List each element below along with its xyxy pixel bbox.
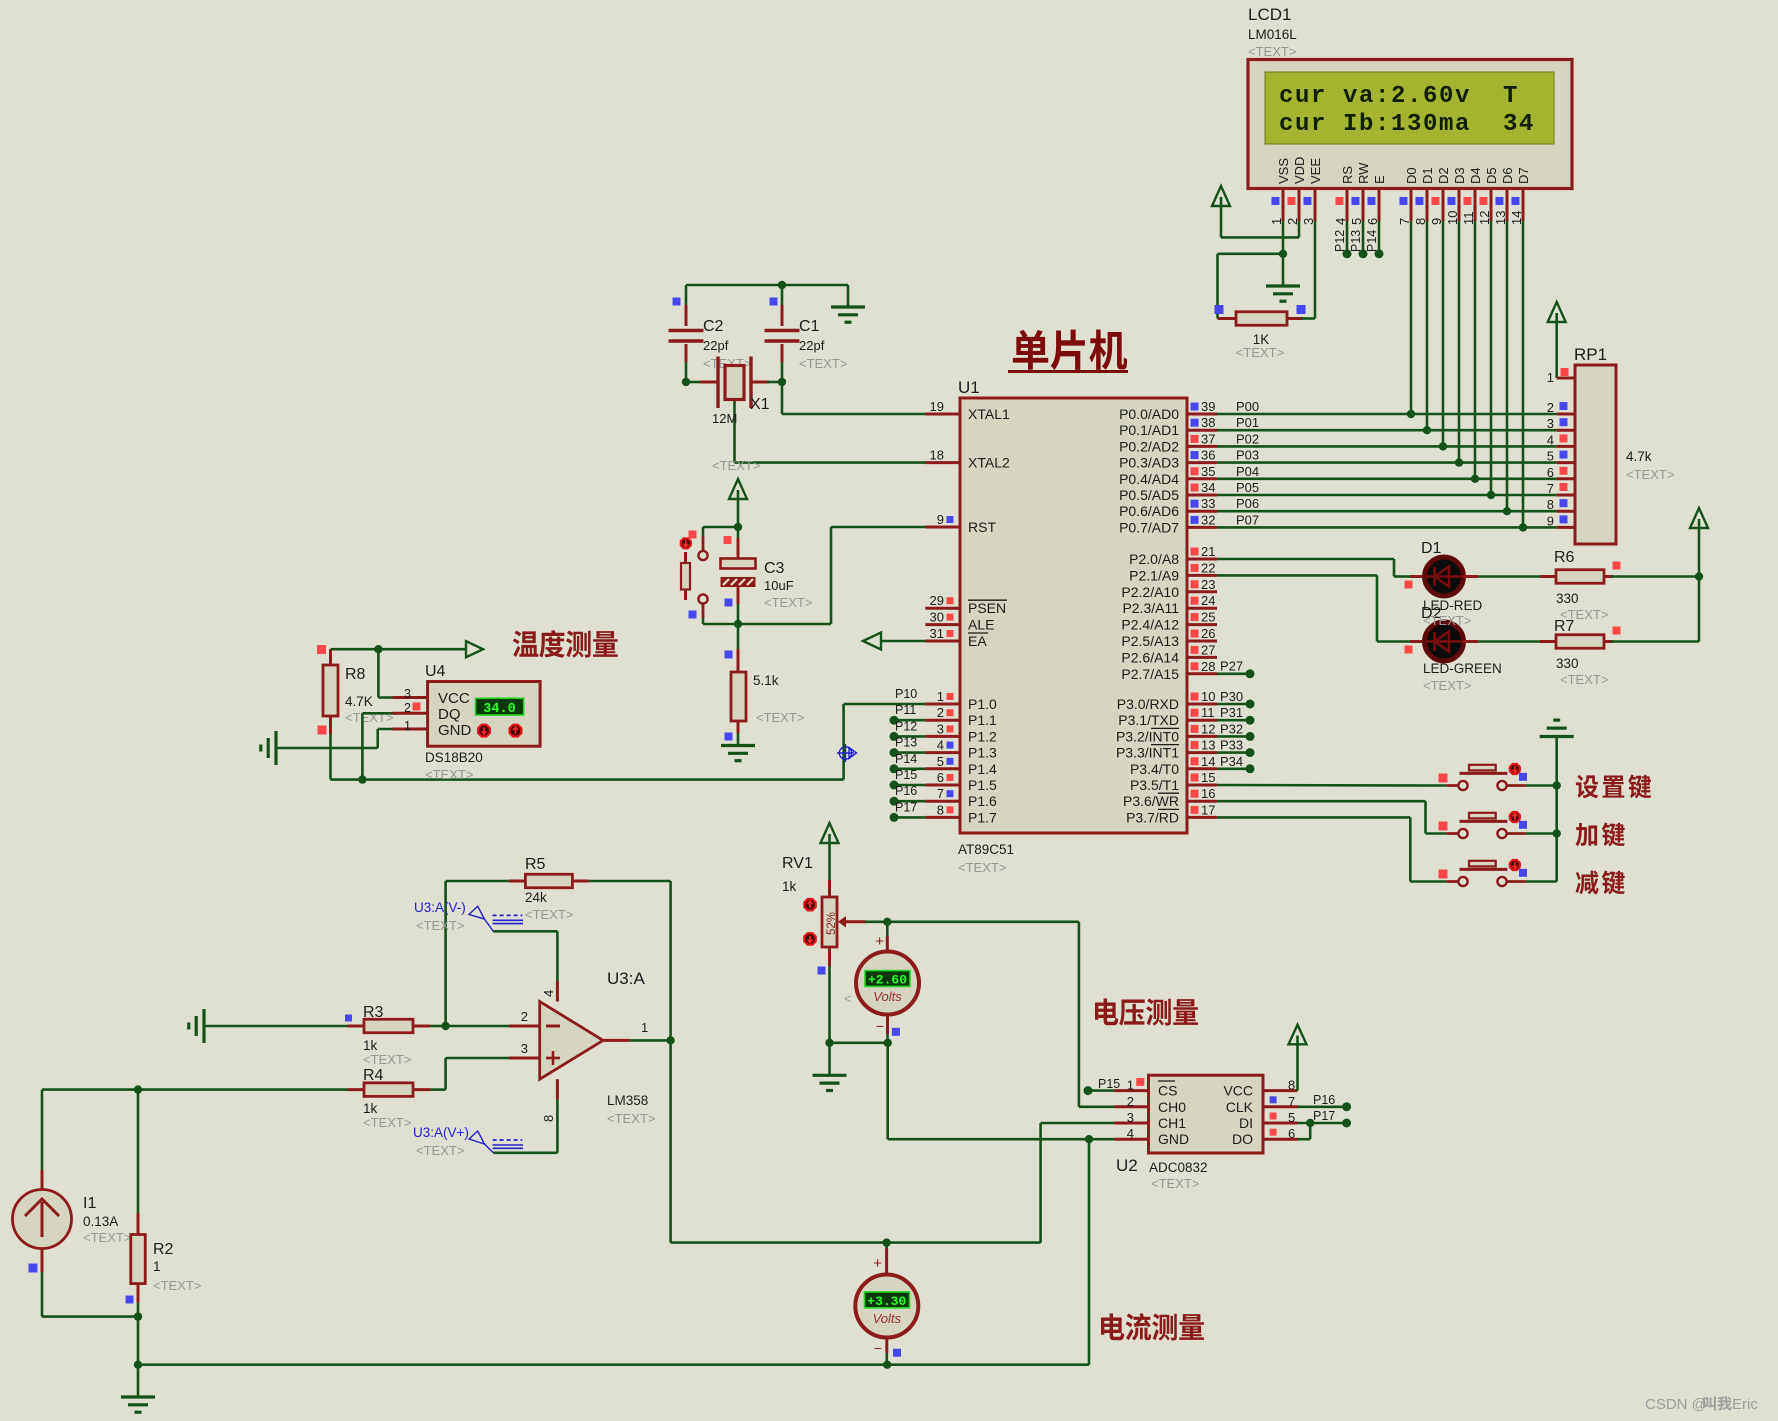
svg-text:P11: P11 (895, 703, 916, 717)
svg-text:X1: X1 (750, 396, 770, 413)
svg-text:P2.4/A12: P2.4/A12 (1121, 617, 1179, 633)
svg-text:4.7k: 4.7k (1626, 449, 1652, 464)
svg-text:4: 4 (1127, 1126, 1134, 1141)
svg-text:CH0: CH0 (1158, 1099, 1186, 1115)
svg-text:CS: CS (1158, 1083, 1177, 1099)
svg-text:D1: D1 (1420, 167, 1435, 184)
svg-text:27: 27 (1201, 642, 1215, 657)
svg-text:C1: C1 (799, 318, 820, 335)
svg-text:U3:A: U3:A (607, 969, 645, 988)
svg-text:P34: P34 (1220, 754, 1243, 769)
svg-text:<: < (844, 991, 852, 1006)
svg-text:P2.7/A15: P2.7/A15 (1121, 666, 1179, 682)
svg-text:52%: 52% (826, 912, 838, 935)
svg-text:1: 1 (404, 719, 411, 733)
svg-text:VDD: VDD (1292, 157, 1307, 184)
svg-text:3: 3 (1127, 1110, 1134, 1125)
svg-text:P05: P05 (1236, 480, 1259, 495)
svg-text:8: 8 (1547, 497, 1554, 512)
svg-text:cur va:2.60v T: cur va:2.60v T (1279, 83, 1519, 110)
svg-text:−: − (876, 1018, 884, 1034)
svg-text:16: 16 (1201, 786, 1215, 801)
svg-text:U3:A(V-): U3:A(V-) (414, 900, 466, 915)
svg-text:3: 3 (937, 721, 944, 736)
svg-text:4: 4 (937, 738, 944, 753)
svg-text:1k: 1k (363, 1038, 378, 1053)
svg-text:P3.6/WR: P3.6/WR (1123, 793, 1179, 809)
svg-text:R7: R7 (1554, 618, 1575, 635)
svg-text:P0.2/AD2: P0.2/AD2 (1119, 438, 1179, 454)
svg-text:24: 24 (1201, 593, 1215, 608)
svg-text:CSDN @: CSDN @ (1645, 1396, 1707, 1413)
svg-text:17: 17 (1201, 802, 1215, 817)
svg-text:1: 1 (641, 1020, 648, 1035)
svg-text:Volts: Volts (873, 1311, 902, 1326)
svg-text:+: + (873, 1255, 882, 1272)
svg-text:D5: D5 (1484, 167, 1499, 184)
svg-text:P1.2: P1.2 (968, 728, 997, 744)
svg-text:RP1: RP1 (1574, 345, 1607, 364)
svg-text:RW: RW (1356, 162, 1371, 184)
svg-text:P3.0/RXD: P3.0/RXD (1117, 696, 1179, 712)
svg-text:R8: R8 (345, 666, 366, 683)
svg-text:DO: DO (1232, 1131, 1253, 1147)
svg-text:2: 2 (1547, 400, 1554, 415)
svg-text:C3: C3 (764, 560, 785, 577)
svg-text:6: 6 (1547, 465, 1554, 480)
svg-text:10: 10 (1201, 689, 1215, 704)
svg-text:38: 38 (1201, 415, 1215, 430)
svg-text:<TEXT>: <TEXT> (764, 595, 812, 610)
svg-text:7: 7 (1547, 481, 1554, 496)
svg-text:7: 7 (937, 786, 944, 801)
svg-text:<TEXT>: <TEXT> (363, 1052, 411, 1067)
svg-text:7: 7 (1288, 1094, 1295, 1109)
svg-text:P2.0/A8: P2.0/A8 (1129, 551, 1179, 567)
svg-text:P1.0: P1.0 (968, 696, 997, 712)
svg-text:1k: 1k (363, 1101, 378, 1116)
svg-text:VEE: VEE (1308, 158, 1323, 184)
svg-text:−: − (874, 1340, 882, 1356)
svg-text:P3.4/T0: P3.4/T0 (1130, 761, 1179, 777)
svg-text:P01: P01 (1236, 415, 1259, 430)
svg-text:P15: P15 (1098, 1077, 1120, 1091)
svg-text:RS: RS (1340, 166, 1355, 184)
svg-text:5: 5 (937, 754, 944, 769)
svg-text:9: 9 (1547, 513, 1554, 528)
svg-text:RST: RST (968, 519, 996, 535)
svg-text:LCD1: LCD1 (1248, 5, 1291, 24)
svg-text:XTAL1: XTAL1 (968, 406, 1010, 422)
svg-text:P27: P27 (1220, 659, 1243, 674)
svg-text:21: 21 (1201, 544, 1215, 559)
svg-text:28: 28 (1201, 659, 1215, 674)
svg-text:11: 11 (1201, 705, 1215, 720)
svg-text:Volts: Volts (873, 989, 902, 1004)
svg-text:34: 34 (1201, 480, 1215, 495)
svg-text:P17: P17 (895, 800, 917, 814)
svg-text:2: 2 (521, 1009, 528, 1024)
svg-text:ADC0832: ADC0832 (1149, 1160, 1208, 1175)
svg-text:18: 18 (930, 448, 944, 463)
svg-text:LED-GREEN: LED-GREEN (1423, 661, 1502, 676)
svg-text:P30: P30 (1220, 689, 1243, 704)
svg-text:29: 29 (930, 593, 944, 608)
svg-text:P0.3/AD3: P0.3/AD3 (1119, 455, 1179, 471)
svg-text:P1.1: P1.1 (968, 712, 997, 728)
svg-text:35: 35 (1201, 464, 1215, 479)
svg-text:GND: GND (438, 722, 472, 739)
svg-text:1: 1 (153, 1259, 161, 1274)
svg-text:<TEXT>: <TEXT> (425, 767, 473, 782)
svg-text:<TEXT>: <TEXT> (958, 860, 1006, 875)
svg-text:22: 22 (1201, 560, 1215, 575)
svg-text:P0.0/AD0: P0.0/AD0 (1119, 406, 1179, 422)
svg-text:3: 3 (404, 687, 411, 701)
svg-text:33: 33 (1201, 496, 1215, 511)
svg-text:330: 330 (1556, 656, 1579, 671)
svg-text:P16: P16 (895, 784, 917, 798)
svg-text:+3.30: +3.30 (867, 1294, 906, 1309)
svg-text:U4: U4 (425, 663, 446, 680)
svg-text:4.7K: 4.7K (345, 694, 373, 709)
svg-text:D7: D7 (1516, 167, 1531, 184)
svg-text:12M: 12M (712, 411, 737, 426)
svg-text:<TEXT>: <TEXT> (607, 1111, 655, 1126)
svg-text:P10: P10 (895, 687, 917, 701)
svg-text:12: 12 (1201, 721, 1215, 736)
svg-text:P32: P32 (1220, 721, 1243, 736)
svg-text:U1: U1 (958, 378, 980, 397)
svg-text:P12: P12 (1333, 230, 1347, 252)
svg-text:P2.1/A9: P2.1/A9 (1129, 567, 1179, 583)
svg-text:VCC: VCC (1223, 1083, 1253, 1099)
svg-text:1k: 1k (782, 879, 797, 894)
svg-text:3: 3 (1547, 416, 1554, 431)
svg-text:U3:A(V+): U3:A(V+) (413, 1125, 469, 1140)
svg-text:CLK: CLK (1226, 1099, 1254, 1115)
svg-text:+2.60: +2.60 (868, 972, 907, 987)
svg-text:D3: D3 (1452, 167, 1467, 184)
svg-text:22pf: 22pf (703, 338, 729, 353)
svg-text:1: 1 (937, 689, 944, 704)
svg-text:XTAL2: XTAL2 (968, 455, 1010, 471)
svg-text:39: 39 (1201, 399, 1215, 414)
svg-text:D6: D6 (1500, 167, 1515, 184)
svg-text:25: 25 (1201, 610, 1215, 625)
svg-text:2: 2 (1127, 1094, 1134, 1109)
svg-text:AT89C51: AT89C51 (958, 842, 1014, 857)
svg-text:LM016L: LM016L (1248, 27, 1297, 42)
svg-text:<TEXT>: <TEXT> (83, 1230, 131, 1245)
svg-text:4: 4 (1547, 432, 1554, 447)
svg-text:U2: U2 (1116, 1156, 1138, 1175)
svg-text:6: 6 (937, 770, 944, 785)
svg-text:GND: GND (1158, 1131, 1189, 1147)
svg-text:<TEXT>: <TEXT> (799, 356, 847, 371)
svg-text:P06: P06 (1236, 496, 1259, 511)
svg-text:<TEXT>: <TEXT> (416, 918, 464, 933)
svg-text:P0.7/AD7: P0.7/AD7 (1119, 519, 1179, 535)
svg-text:P00: P00 (1236, 399, 1259, 414)
svg-text:VCC: VCC (438, 690, 470, 707)
svg-text:LM358: LM358 (607, 1093, 648, 1108)
svg-text:5: 5 (1547, 449, 1554, 464)
svg-text:DQ: DQ (438, 706, 461, 723)
svg-text:P1.4: P1.4 (968, 761, 997, 777)
svg-text:8: 8 (1288, 1078, 1295, 1093)
svg-text:P15: P15 (895, 768, 917, 782)
svg-text:<TEXT>: <TEXT> (1151, 1176, 1199, 1191)
svg-text:P2.6/A14: P2.6/A14 (1121, 649, 1179, 665)
svg-text:P07: P07 (1236, 512, 1259, 527)
svg-text:EA: EA (968, 633, 987, 649)
svg-text:P17: P17 (1313, 1109, 1335, 1123)
svg-text:14: 14 (1201, 754, 1215, 769)
svg-text:P13: P13 (895, 736, 917, 750)
svg-text:15: 15 (1201, 770, 1215, 785)
svg-text:DI: DI (1239, 1115, 1253, 1131)
svg-text:P31: P31 (1220, 705, 1243, 720)
svg-text:24k: 24k (525, 890, 547, 905)
svg-text:36: 36 (1201, 448, 1215, 463)
svg-text:P04: P04 (1236, 464, 1259, 479)
svg-text:P14: P14 (1365, 230, 1379, 252)
svg-text:P0.5/AD5: P0.5/AD5 (1119, 487, 1179, 503)
svg-text:D4: D4 (1468, 167, 1483, 184)
svg-text:P3.2/INT0: P3.2/INT0 (1116, 728, 1179, 744)
svg-text:D0: D0 (1404, 167, 1419, 184)
svg-text:P1.3: P1.3 (968, 745, 997, 761)
svg-text:R2: R2 (153, 1241, 174, 1258)
svg-text:P0.4/AD4: P0.4/AD4 (1119, 471, 1179, 487)
svg-text:P13: P13 (1349, 230, 1363, 252)
svg-text:32: 32 (1201, 512, 1215, 527)
svg-text:CH1: CH1 (1158, 1115, 1186, 1131)
svg-text:19: 19 (930, 399, 944, 414)
svg-text:<TEXT>: <TEXT> (712, 458, 760, 473)
svg-text:4: 4 (541, 990, 556, 997)
svg-text:D2: D2 (1436, 167, 1451, 184)
svg-text:8: 8 (937, 802, 944, 817)
svg-text:P0.6/AD6: P0.6/AD6 (1119, 503, 1179, 519)
svg-text:26: 26 (1201, 626, 1215, 641)
svg-text:2: 2 (937, 705, 944, 720)
svg-text:3: 3 (521, 1041, 528, 1056)
svg-text:P0.1/AD1: P0.1/AD1 (1119, 422, 1179, 438)
svg-text:<TEXT>: <TEXT> (363, 1115, 411, 1130)
svg-text:<TEXT>: <TEXT> (416, 1143, 464, 1158)
svg-text:+: + (875, 933, 884, 950)
svg-text:RV1: RV1 (782, 855, 813, 872)
svg-text:<TEXT>: <TEXT> (1248, 44, 1296, 59)
svg-text:22pf: 22pf (799, 338, 825, 353)
svg-text:6: 6 (1288, 1126, 1295, 1141)
svg-text:I1: I1 (83, 1195, 96, 1212)
svg-text:31: 31 (930, 626, 944, 641)
svg-text:P2.5/A13: P2.5/A13 (1121, 633, 1179, 649)
svg-text:9: 9 (937, 512, 944, 527)
svg-text:P3.1/TXD: P3.1/TXD (1118, 712, 1179, 728)
svg-text:30: 30 (930, 610, 944, 625)
svg-text:34.0: 34.0 (483, 702, 515, 717)
svg-text:<TEXT>: <TEXT> (1560, 672, 1608, 687)
svg-text:ALE: ALE (968, 617, 994, 633)
svg-text:<TEXT>: <TEXT> (153, 1278, 201, 1293)
svg-text:P14: P14 (895, 752, 917, 766)
svg-text:<TEXT>: <TEXT> (1423, 613, 1471, 628)
svg-text:P1.6: P1.6 (968, 793, 997, 809)
svg-text:P2.2/A10: P2.2/A10 (1121, 584, 1179, 600)
svg-text:330: 330 (1556, 591, 1579, 606)
svg-text:5.1k: 5.1k (753, 673, 779, 688)
svg-text:<TEXT>: <TEXT> (525, 907, 573, 922)
svg-text:D1: D1 (1421, 540, 1442, 557)
svg-text:Eric: Eric (1732, 1396, 1758, 1413)
svg-text:<TEXT>: <TEXT> (1626, 467, 1674, 482)
svg-text:P2.3/A11: P2.3/A11 (1122, 600, 1179, 616)
svg-text:P02: P02 (1236, 431, 1259, 446)
svg-text:P33: P33 (1220, 738, 1243, 753)
svg-text:R5: R5 (525, 856, 546, 873)
svg-text:23: 23 (1201, 577, 1215, 592)
svg-text:10uF: 10uF (764, 578, 794, 593)
svg-text:R4: R4 (363, 1067, 384, 1084)
svg-text:P3.5/T1: P3.5/T1 (1130, 777, 1179, 793)
svg-text:5: 5 (1288, 1110, 1295, 1125)
svg-text:13: 13 (1201, 738, 1215, 753)
svg-text:P03: P03 (1236, 448, 1259, 463)
svg-text:P1.5: P1.5 (968, 777, 997, 793)
svg-text:8: 8 (541, 1115, 556, 1122)
svg-text:P3.3/INT1: P3.3/INT1 (1116, 745, 1179, 761)
svg-text:1: 1 (1127, 1078, 1134, 1093)
svg-text:2: 2 (404, 701, 411, 715)
svg-text:cur Ib:130ma 34: cur Ib:130ma 34 (1279, 111, 1535, 138)
svg-text:P16: P16 (1313, 1093, 1335, 1107)
svg-text:C2: C2 (703, 318, 724, 335)
svg-text:P1.7: P1.7 (968, 809, 997, 825)
svg-text:37: 37 (1201, 431, 1215, 446)
svg-text:1: 1 (1547, 370, 1554, 385)
svg-text:<TEXT>: <TEXT> (1423, 678, 1471, 693)
svg-text:<TEXT>: <TEXT> (756, 710, 804, 725)
svg-text:<TEXT>: <TEXT> (1236, 345, 1284, 360)
svg-text:0.13A: 0.13A (83, 1214, 118, 1229)
svg-text:P12: P12 (895, 719, 917, 733)
svg-text:PSEN: PSEN (968, 600, 1006, 616)
svg-text:VSS: VSS (1276, 158, 1291, 184)
svg-text:E: E (1372, 175, 1387, 184)
svg-text:R6: R6 (1554, 549, 1575, 566)
svg-text:DS18B20: DS18B20 (425, 750, 483, 765)
svg-text:P3.7/RD: P3.7/RD (1126, 809, 1179, 825)
